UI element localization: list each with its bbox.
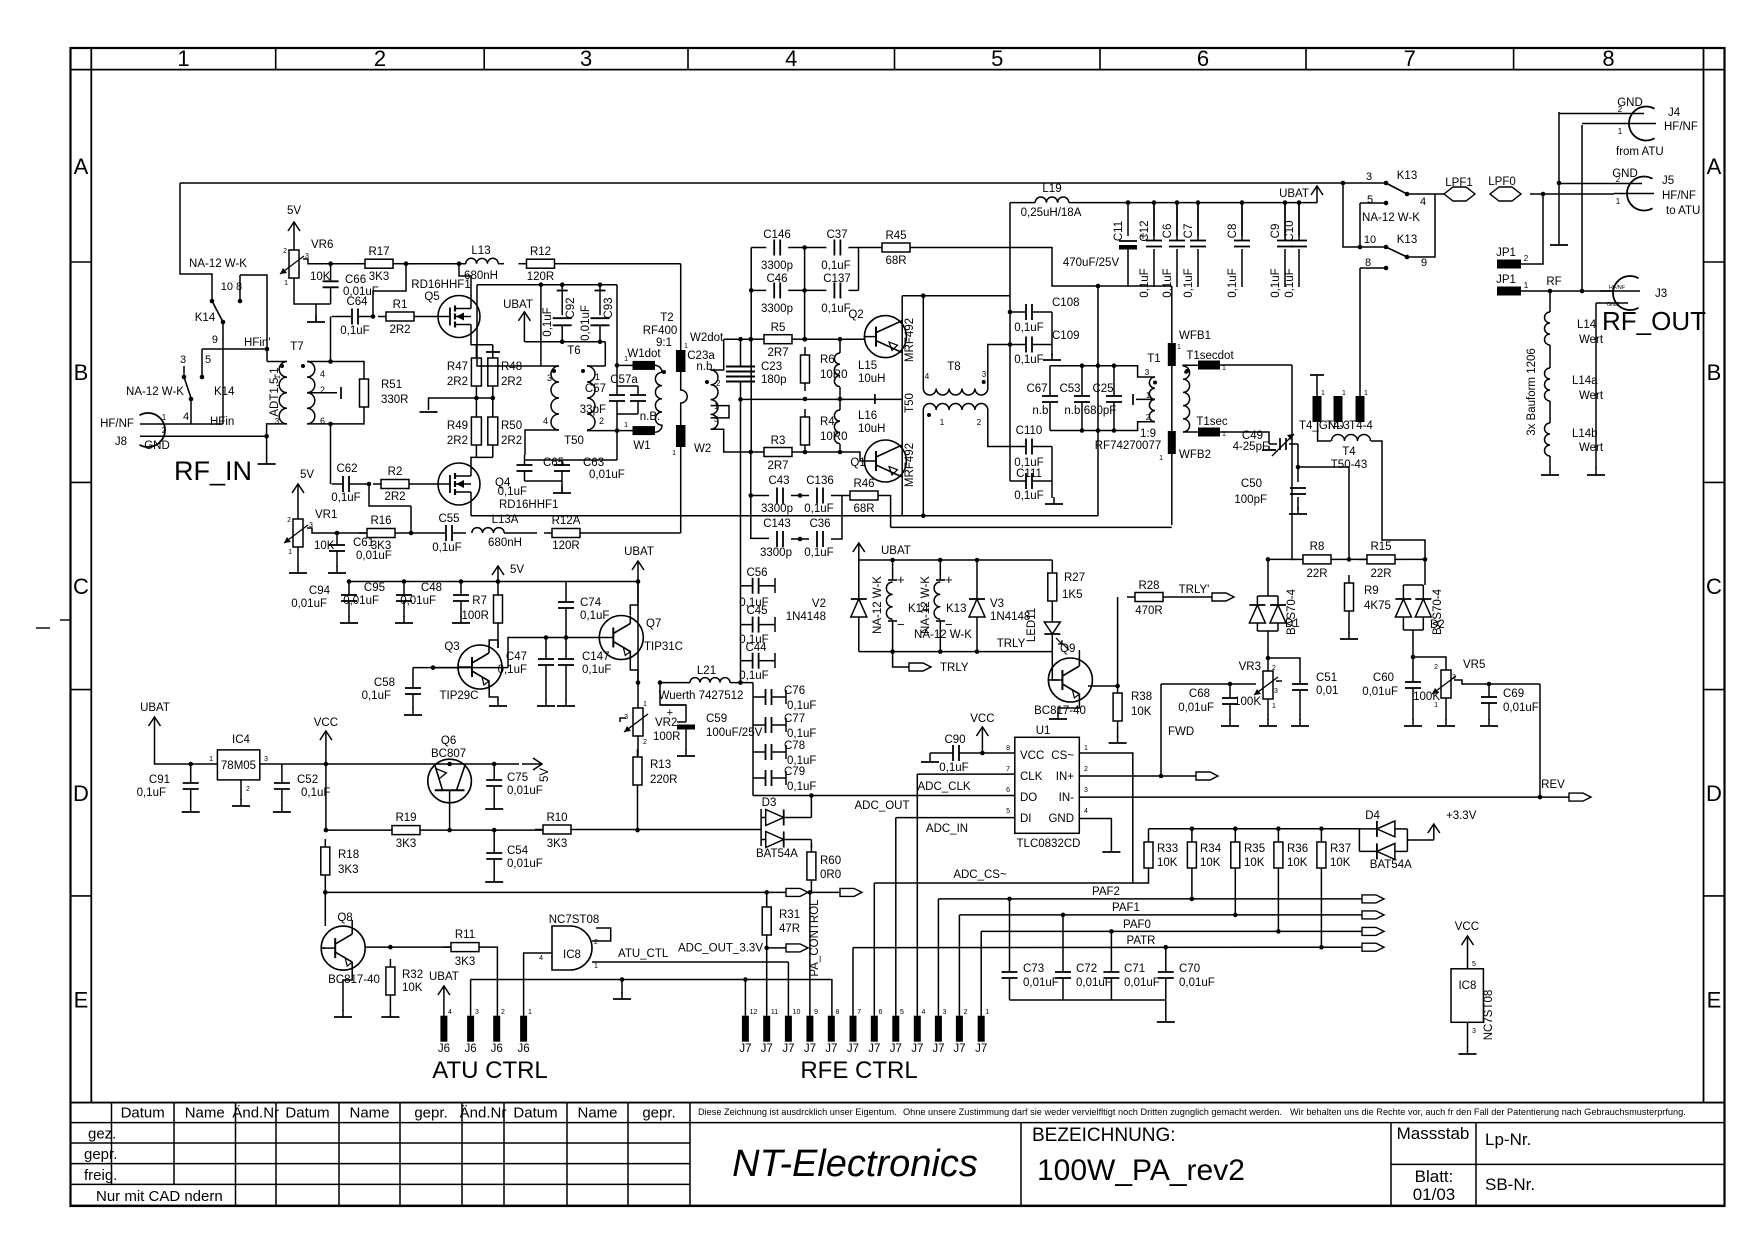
svg-text:0,1uF: 0,1uF [1284,268,1296,297]
svg-text:10: 10 [793,1009,801,1016]
svg-text:R38: R38 [1131,691,1152,703]
wire R33 bottom [1133,868,1149,883]
relay coil K13 sym [934,582,940,619]
svg-text:0,01uF: 0,01uF [580,305,592,341]
wire T2 sec top [711,339,724,370]
resistor R7 sym [497,587,499,595]
wire R47 top rail [476,344,492,346]
svg-text:0,01uF: 0,01uF [400,595,436,607]
svg-text:R15: R15 [1370,541,1391,553]
resistor R35 [1234,829,1236,842]
capacitor C11 (electrolytic) [1119,240,1137,242]
svg-text:C48: C48 [421,582,442,594]
svg-text:C: C [73,574,89,599]
svg-text:3K3: 3K3 [455,956,475,968]
5V right arrow [522,763,542,765]
svg-text:J7: J7 [761,1043,773,1055]
capacitor C7 [1197,240,1199,242]
resistor R17 body [357,263,365,265]
wire R5 left [751,338,756,340]
svg-text:10K: 10K [1330,857,1351,869]
svg-text:1: 1 [1177,344,1181,351]
svg-text:+: + [667,707,673,719]
capacitor C71 sym [1110,971,1112,973]
svg-text:3: 3 [547,373,552,383]
capacitor C61 sym [336,544,338,546]
svg-text:C63: C63 [583,457,604,469]
net flag TRLY2 sym [1212,593,1234,601]
wire C74 rail [566,581,638,583]
wire T8 upper right [988,345,1010,389]
svg-text:C68: C68 [1189,688,1210,700]
svg-text:R60: R60 [820,855,841,867]
transformer T7 right winding [307,362,315,424]
svg-text:78M05: 78M05 [221,760,256,772]
svg-text:Q5: Q5 [424,291,439,303]
wire R11 right [487,947,497,1016]
wire J3 gnd [1596,302,1628,304]
svg-text:C9: C9 [1270,224,1282,239]
connector J5 arc [1627,177,1653,211]
svg-text:C90: C90 [944,734,965,746]
wire T1 core [1171,366,1173,431]
svg-text:10K: 10K [1244,857,1265,869]
svg-text:Nur mit CAD ndern: Nur mit CAD ndern [96,1188,223,1205]
jumper JP1 pin1 [1497,287,1521,296]
svg-text:J6: J6 [438,1043,450,1055]
svg-text:C95: C95 [364,582,385,594]
svg-text:C137: C137 [823,273,851,285]
svg-text:BAT54A: BAT54A [1370,859,1412,871]
wire T2 sec bottom [711,429,752,452]
svg-text:2R2: 2R2 [447,376,468,388]
connector pin T4-4 sym [1356,396,1365,422]
wire top rail [180,182,1343,184]
relay coil K14 [892,560,894,580]
svg-text:120R: 120R [552,540,580,552]
diode D2b [1415,599,1431,617]
UBAT arrow [1316,186,1318,203]
wire K14 pin8 [240,275,267,362]
resistor R31 sym [766,899,768,907]
svg-text:C136: C136 [806,475,834,487]
svg-text:Wert: Wert [1579,390,1604,402]
svg-text:C45: C45 [746,605,767,617]
wire VCC down [325,745,327,830]
wire C76 left rail [752,690,754,796]
capacitor C68 sym [1229,697,1231,699]
wire PATR [853,946,1362,948]
ground J8 [266,457,268,464]
wire R33 top stub [1148,829,1150,842]
wire R8 to D1 [1339,558,1367,560]
wire UBAT J6 drop [443,999,445,1016]
svg-text:ADC_IN: ADC_IN [926,823,968,835]
svg-text:R46: R46 [853,478,874,490]
wire T7 pin2 [307,392,337,394]
wire J8 pin1 [140,423,223,425]
ground Q3 [497,699,499,706]
svg-text:C37: C37 [826,229,847,241]
svg-text:J7: J7 [953,1043,965,1055]
wire C11 stub [1127,203,1129,236]
svg-text:gez.: gez. [88,1126,116,1143]
svg-text:C55: C55 [438,513,459,525]
svg-text:L14b: L14b [1572,428,1598,440]
wire IC4 out [260,763,519,765]
svg-text:10K: 10K [1157,857,1178,869]
wire K13 pin9 [1407,194,1435,257]
svg-text:0,1uF: 0,1uF [1014,490,1043,502]
transformer T2 secondary coil [711,370,718,429]
svg-text:4: 4 [543,416,548,426]
diode D1a [1249,605,1265,623]
svg-text:J5: J5 [1662,175,1674,187]
ferrite WFB1 sym [1168,343,1176,366]
wire T7 gate feed [330,317,332,362]
svg-text:0,1uF: 0,1uF [1227,268,1239,297]
wire R12 right [562,263,681,265]
wire pin5 to pin10 [1359,203,1361,247]
svg-text:0,01uF: 0,01uF [507,858,543,870]
wire C108 left rail [1009,296,1011,447]
capacitor C111 sym [1025,480,1027,482]
wire Q7 emitter [630,659,638,683]
svg-text:C143: C143 [763,518,791,530]
svg-text:8: 8 [1365,257,1371,269]
svg-text:0,01uF: 0,01uF [1178,702,1214,714]
svg-text:C50: C50 [1241,478,1262,490]
svg-text:J7: J7 [932,1043,944,1055]
svg-text:0,1uF: 0,1uF [787,781,816,793]
svg-text:VCC: VCC [1020,750,1044,762]
ground caps [1165,1015,1167,1022]
wire REV vertical [1539,684,1541,797]
wire L14b bottom [1549,456,1551,469]
svg-text:VR1: VR1 [315,509,337,521]
svg-text:UBAT: UBAT [1279,188,1309,200]
svg-text:0,1uF: 0,1uF [1139,268,1151,297]
wire T2 sec mid [711,406,729,418]
svg-text:R19: R19 [395,812,416,824]
svg-text:0,01uF: 0,01uF [1179,977,1215,989]
wire R8 left [1292,365,1295,559]
svg-text:1: 1 [1342,390,1346,397]
transformer T1 right winding [1183,366,1190,432]
ground on rail [621,980,623,995]
capacitor C56 sym [752,585,754,587]
capacitor C79 sym [765,777,767,779]
wire T6 right rail upper [616,366,618,395]
relay coil K14 sym [886,582,892,619]
capacitor C9 [1284,240,1286,242]
capacitor C54 sym [493,852,495,854]
svg-text:Name: Name [577,1105,617,1122]
svg-text:2: 2 [977,418,982,427]
resistor R36 [1277,829,1279,842]
svg-text:680pF: 680pF [1084,405,1117,417]
svg-text:Q6: Q6 [441,735,456,747]
wire TRLY bottom rail [859,651,1053,653]
wire CS riser [873,883,875,1016]
wire cap left vert [750,248,752,340]
svg-text:C79: C79 [784,766,805,778]
svg-text:5V: 5V [539,768,551,782]
svg-text:CLK: CLK [1020,771,1043,783]
wire UBAT to IC4 [155,732,218,764]
inductor L14b coil [1545,423,1551,456]
wire J4 gnd drop [1558,112,1560,238]
svg-text:9: 9 [212,334,218,346]
svg-text:3K3: 3K3 [547,838,567,850]
wire C58 rail [413,667,433,669]
svg-text:C71: C71 [1124,963,1145,975]
svg-text:100W_PA_rev2: 100W_PA_rev2 [1037,1154,1245,1187]
wire left rail [180,183,212,299]
capacitor C60 sym [1412,681,1414,683]
svg-text:5V: 5V [510,564,524,576]
wire D3 up [810,796,812,818]
capacitor C143 sym [776,538,778,540]
svg-text:T50-43: T50-43 [1331,459,1367,471]
wire R mid rail [476,397,492,399]
capacitor C37 sym [833,247,835,249]
svg-text:W1: W1 [633,440,650,452]
svg-text:0,1uF: 0,1uF [1014,322,1043,334]
svg-text:0,1uF: 0,1uF [498,486,527,498]
wire R7 bottom [497,631,499,648]
svg-text:0,1uF: 0,1uF [739,670,768,682]
potentiometer VR5 body [1441,670,1451,698]
wire T6 box right [616,285,618,366]
svg-text:C52: C52 [297,774,318,786]
wire DI rail [896,817,1015,819]
svg-text:11: 11 [771,1009,778,1016]
wire PAF0 riser [980,931,982,1015]
svg-text:WFB2: WFB2 [1179,449,1211,461]
5V arrow VR1 [297,484,299,500]
svg-text:RF: RF [1546,276,1561,288]
connector J6 pin4 sym [440,1016,447,1042]
transistor Q2 MRF492 [864,316,906,358]
wire UBAT rail [1010,202,1035,204]
svg-text:R32: R32 [402,969,423,981]
svg-text:3: 3 [1274,688,1278,695]
svg-text:C72: C72 [1076,963,1097,975]
svg-text:2: 2 [1084,766,1088,773]
resistor R12A body [544,532,552,534]
svg-text:C11: C11 [1113,221,1125,241]
svg-text:R6: R6 [820,354,835,366]
wire J6 pin3 up [470,980,472,1016]
wire C49 right [1297,444,1299,467]
svg-text:Ohne unsere Zustimmung darf si: Ohne unsere Zustimmung darf sie weder ve… [903,1107,1282,1117]
svg-text:4: 4 [922,1009,926,1016]
svg-text:3300p: 3300p [761,260,793,272]
wire FWD [1161,683,1256,685]
connector J7 pin2 sym [956,1016,963,1042]
svg-text:NT-Electronics: NT-Electronics [732,1143,978,1185]
resistor R11 body [443,946,451,948]
net flag PAF0 sym [1362,927,1384,935]
svg-text:J3: J3 [1655,288,1667,300]
svg-text:RF400: RF400 [643,325,678,337]
wire R28 drop [1117,597,1119,693]
wire ATU_CTL drop [787,962,789,1016]
svg-text:Änd.Nr: Änd.Nr [232,1105,279,1122]
svg-text:C110: C110 [1016,425,1043,437]
svg-text:1K5: 1K5 [1062,589,1082,601]
svg-text:C25: C25 [1092,383,1113,395]
ground C61 [336,566,338,573]
wire T6 center rail [524,341,605,343]
svg-text:R10: R10 [546,812,567,824]
svg-text:5V: 5V [287,205,301,217]
wire PA bottom rail [471,515,1098,517]
wire T6 feed [540,285,542,366]
svg-text:0,1uF: 0,1uF [821,303,850,315]
connector J7 pin1 sym [978,1016,985,1042]
wire VR1 bottom [297,547,299,567]
wire PAF2 [938,898,1362,900]
wire cap rail2a [751,289,766,291]
svg-text:100K: 100K [1234,696,1261,708]
wire C110 left rail [1009,447,1011,482]
svg-text:1: 1 [624,422,628,429]
wire R36 bottom [1277,868,1279,931]
svg-text:C78: C78 [784,740,805,752]
wire FWD down [1160,684,1162,776]
ground Q9 [1057,712,1059,719]
svg-text:LPF1: LPF1 [1445,177,1473,189]
svg-text:4: 4 [785,46,797,71]
svg-text:C94: C94 [309,585,331,597]
wire cap block top [1050,366,1155,377]
capacitor C67 sym [1049,395,1051,397]
resistor R9 sym [1348,575,1350,583]
svg-text:R9: R9 [1364,585,1379,597]
svg-text:1: 1 [1321,390,1325,397]
diode V3 sym [969,599,985,617]
svg-text:3300p: 3300p [760,547,792,559]
net flag PATR sym [1362,943,1384,951]
wire L21 left [660,682,690,684]
capacitor C109 sym [1025,344,1027,346]
wire C12 lower [1153,249,1155,287]
wire Q8 collector [351,920,353,926]
wire PAF2 riser [937,899,939,1016]
wire W2dot top [680,264,682,350]
ground C68 [1229,719,1231,726]
svg-text:C53: C53 [1059,383,1080,395]
wire T6 pin1 drop [604,342,606,366]
svg-text:DO: DO [1020,792,1037,804]
connector J4 arc [1629,106,1655,140]
net flag adc33 sym [786,944,808,952]
svg-text:R8: R8 [1310,541,1325,553]
wire R18 bottom [324,883,326,892]
svg-text:2: 2 [643,739,647,746]
ground C52 [281,805,283,812]
wire C7 lower [1197,249,1199,287]
resistor R8 body [1295,558,1303,560]
wire C6 lower [1176,249,1178,287]
wire R32 gnd [389,1003,391,1011]
svg-text:C69: C69 [1503,688,1524,700]
capacitor C46 sym [773,289,775,291]
svg-text:J7: J7 [847,1043,859,1055]
capacitor C23 [726,376,755,378]
wire VR2 top [637,683,639,708]
svg-text:PATR: PATR [1127,935,1156,947]
svg-text:10K: 10K [1131,706,1152,718]
wire pullup rail [1149,828,1360,830]
svg-text:4: 4 [1420,196,1426,208]
wire R17 right [401,263,466,265]
svg-text:2: 2 [1616,175,1621,184]
wire C12 stub [1153,203,1155,236]
jumper JP1 pin2 [1497,260,1521,269]
svg-text:L16: L16 [858,410,877,422]
ground C75 [493,802,495,809]
svg-text:5: 5 [900,1009,904,1016]
wire C136-R46 [831,495,842,497]
connector J6 pin3 sym [467,1016,474,1042]
wire PA_CONTROL [809,892,811,1015]
wire D2 top [1424,555,1426,585]
wire T6 box left [477,285,559,366]
svg-text:22R: 22R [1370,568,1391,580]
wire R2 junction up [369,484,411,506]
svg-text:NA-12 W-K: NA-12 W-K [920,576,932,634]
connector J7 pin5 sym [892,1016,899,1042]
svg-text:C70: C70 [1179,963,1200,975]
wire Q5 source [471,338,476,345]
svg-text:7: 7 [857,1009,861,1016]
svg-text:BAS70-4: BAS70-4 [1432,588,1444,635]
wire Q9 base [1052,652,1058,680]
wire C9 stub [1284,203,1286,236]
resistor R13 sym [637,749,639,757]
ground C91 [190,805,192,812]
wire R7 top [497,582,499,588]
wire W2 bottom [680,447,682,533]
wire L14 top [1549,291,1551,312]
potentiometer VR6 body [289,250,299,278]
svg-text:ADC_OUT: ADC_OUT [855,800,910,812]
net flag inplus sym [1196,772,1218,780]
svg-text:0,25uH/18A: 0,25uH/18A [1021,207,1082,219]
capacitor C91 sym [190,782,192,784]
svg-text:VR5: VR5 [1463,659,1485,671]
svg-text:B: B [74,360,89,385]
wire C56 left rail [740,399,742,683]
inductor L16 coil [834,410,840,444]
wire J4 hf drop [1581,125,1583,291]
svg-text:5V: 5V [300,469,314,481]
wire VR5 wiper out [1454,680,1540,684]
ground J3 [1595,468,1597,475]
capacitor C147 sym [565,658,567,660]
wire PATR riser pin7 [852,948,854,1016]
wire Q3 base left [433,667,508,669]
svg-text:C93: C93 [603,297,615,318]
svg-text:TLC0832CD: TLC0832CD [1017,838,1081,850]
svg-text:R12: R12 [530,246,551,258]
VCC arrow IC8 [1467,936,1469,949]
wire Q8 collector out [365,946,452,948]
wire PAF0 [981,930,1362,932]
